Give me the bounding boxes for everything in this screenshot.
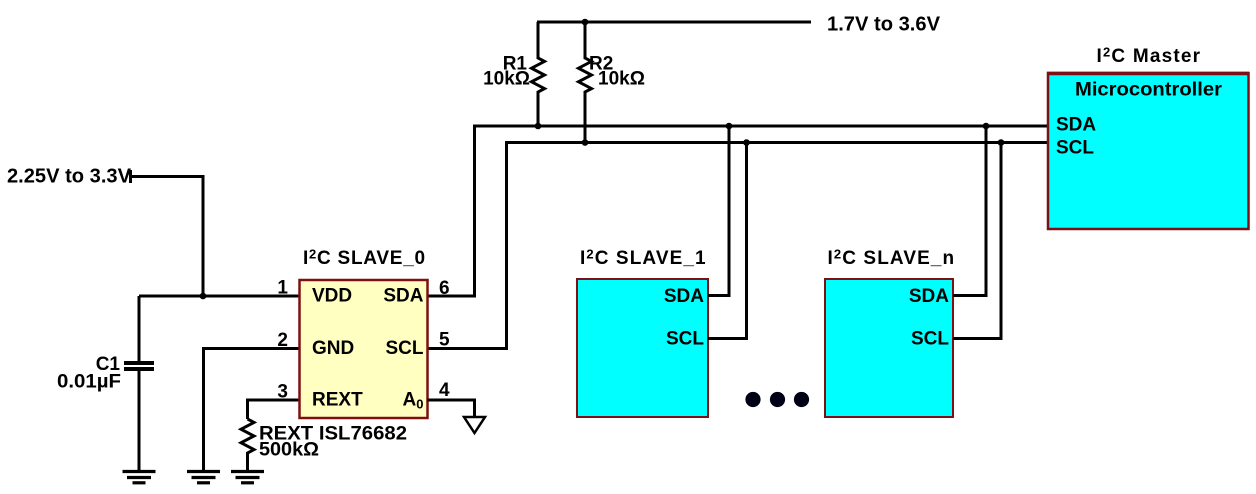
wire: REXT pin 3 <box>248 400 300 419</box>
wire: 1.7V supply rail <box>537 21 811 24</box>
capacitor C1 <box>124 296 154 471</box>
svg-text:500kΩ: 500kΩ <box>259 440 319 461</box>
svg-text:SDA: SDA <box>664 286 704 307</box>
ground: REXT <box>231 472 264 483</box>
svg-text:SCL: SCL <box>1056 138 1094 159</box>
svg-text:1.7V to 3.6V: 1.7V to 3.6V <box>827 14 941 36</box>
wire: slave1 SDA to bus <box>708 126 729 296</box>
svg-text:SDA: SDA <box>909 286 949 307</box>
svg-text:I2C SLAVE_0: I2C SLAVE_0 <box>303 247 426 270</box>
junction: slave1 SDA on bus <box>726 123 733 130</box>
svg-text:2: 2 <box>277 330 288 351</box>
junction: slave n SCL on bus <box>998 139 1005 146</box>
svg-text:Microcontroller: Microcontroller <box>1075 80 1223 101</box>
svg-text:GND: GND <box>312 338 354 359</box>
svg-text:1: 1 <box>277 278 288 299</box>
wire: supply terminal tick <box>129 170 132 183</box>
wire: slave1 SCL to bus <box>708 143 747 339</box>
svg-text:10kΩ: 10kΩ <box>598 69 645 90</box>
wire: VDD pin 1 <box>139 295 299 298</box>
junction: supply on VDD wire <box>200 293 207 300</box>
svg-text:SCL: SCL <box>386 338 424 359</box>
junction: slave n SDA on bus <box>983 123 990 130</box>
svg-text:SCL: SCL <box>911 329 949 350</box>
junction: R1 bottom on SDA bus <box>535 123 542 130</box>
wire: SCL bus (slave_0 pin 5 up and across to master) <box>428 143 1049 349</box>
svg-text:I2C SLAVE_n: I2C SLAVE_n <box>828 247 956 270</box>
svg-text:5: 5 <box>439 330 450 351</box>
svg-text:I2C SLAVE_1: I2C SLAVE_1 <box>580 247 707 270</box>
wire: A0 pin 4 <box>428 400 475 416</box>
resistor R1 <box>532 22 545 126</box>
svg-text:VDD: VDD <box>312 286 352 307</box>
wire: GND pin 2 <box>204 349 300 471</box>
wire: 2.25V supply to VDD node <box>130 177 203 297</box>
ground triangle: A0 <box>464 417 485 433</box>
IC master box (Microcontroller) <box>1048 73 1249 229</box>
wire: slave n SCL to bus <box>953 143 1001 339</box>
ground: C1 <box>123 472 156 483</box>
resistor REXT 500k <box>241 419 254 470</box>
svg-text:10kΩ: 10kΩ <box>483 69 530 90</box>
wire: SDA bus (slave_0 pin 6 up and across to master) <box>428 126 1049 296</box>
node: ellipsis dots between slaves <box>745 392 809 407</box>
svg-text:I2C Master: I2C Master <box>1097 45 1202 68</box>
resistor R2 <box>579 22 592 143</box>
svg-text:6: 6 <box>439 278 450 299</box>
IC slave n box <box>825 279 953 417</box>
wire: slave n SDA to bus <box>953 126 986 296</box>
svg-text:2.25V to 3.3V: 2.25V to 3.3V <box>7 166 132 188</box>
svg-text:SDA: SDA <box>383 286 423 307</box>
svg-text:REXT: REXT <box>312 390 363 411</box>
IC slave 0 box <box>300 280 428 418</box>
junction: R2 bottom on SCL bus <box>582 139 589 146</box>
ground: GND pin <box>187 472 220 483</box>
svg-text:0.01µF: 0.01µF <box>57 372 121 393</box>
IC slave 1 box <box>577 279 708 417</box>
svg-text:SCL: SCL <box>666 329 704 350</box>
svg-text:SDA: SDA <box>1056 115 1096 136</box>
junction: slave1 SCL on bus <box>743 139 750 146</box>
svg-text:3: 3 <box>277 382 288 403</box>
junction: R2 top on supply rail <box>582 19 589 26</box>
svg-text:4: 4 <box>439 380 450 401</box>
